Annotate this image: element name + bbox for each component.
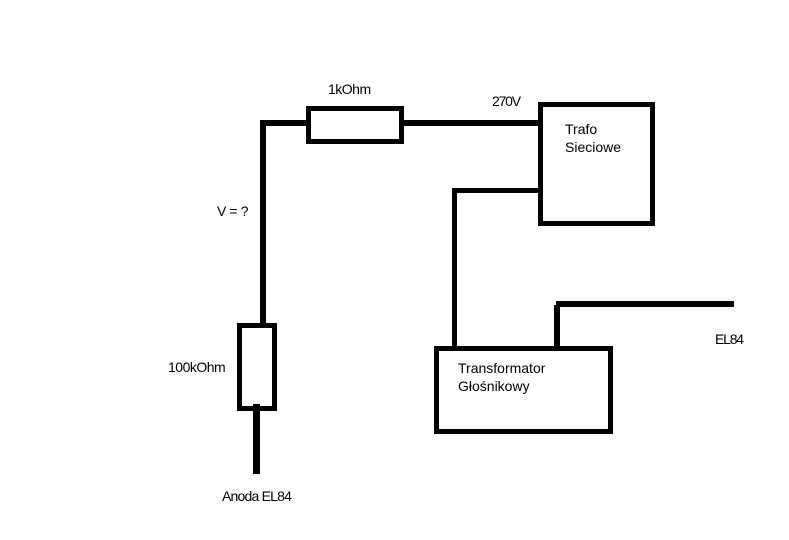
label EL84 tube connection: [715, 331, 743, 347]
wire horizontal from Trafo Sieciowe left side to junction: [452, 188, 538, 193]
label Trafo Sieciowe: [565, 120, 621, 156]
label V = ? node voltage: [217, 203, 248, 219]
wire vertical from Transformator Glosnikowy top to EL84 lead corner: [554, 305, 560, 346]
transformer T2 Transformator Glosnikowy: [434, 346, 613, 434]
label Anoda EL84 node: [222, 488, 291, 504]
wire vertical from node A down to R2 top terminal: [260, 120, 266, 323]
wire from R2 bottom terminal down to Anoda EL84: [253, 404, 260, 474]
resistor R2 100kOhm: [237, 323, 277, 411]
wire vertical down to Transformator Glosnikowy top: [452, 188, 457, 346]
transformer T1 Trafo Sieciowe: [538, 102, 655, 226]
label 1kOhm value of R1: [328, 81, 371, 97]
wire horizontal EL84 lead: [556, 301, 734, 307]
label 100kOhm value of R2: [168, 359, 225, 375]
label 270V net voltage: [492, 93, 520, 109]
label Transformator Glosnikowy: [458, 359, 545, 395]
wire from node A corner to R1 left terminal (horizontal): [260, 120, 306, 126]
wire from R1 right terminal to Trafo Sieciowe (270V net): [404, 120, 538, 126]
resistor R1 1kOhm: [306, 106, 404, 144]
